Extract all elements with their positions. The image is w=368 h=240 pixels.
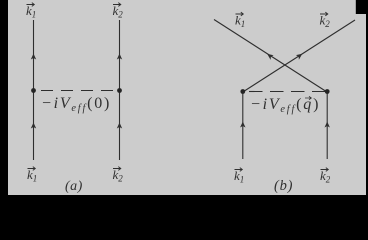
vertex dot right (a)	[117, 88, 122, 93]
label k2 bottom (b)	[320, 168, 331, 185]
label -iVeff(q)	[250, 96, 320, 115]
bottom black margin	[0, 195, 368, 213]
dashed interaction line (a)	[41, 90, 113, 92]
wire: diagonal line top-right to left vertex (b)	[243, 20, 355, 92]
vertex dot left (b)	[240, 89, 245, 94]
label k1 top (a)	[26, 3, 36, 20]
label k1 bottom (b)	[234, 168, 244, 185]
arrow lower-left (b)	[240, 122, 245, 128]
wire: left fermion line (a)	[33, 20, 35, 160]
label k1 top (b)	[235, 12, 245, 29]
wire: left vertical lower line (b)	[242, 92, 244, 160]
arrow lower-right (a)	[117, 123, 122, 129]
label k2 bottom (a)	[113, 167, 124, 184]
vertex dot left (a)	[31, 88, 36, 93]
dashed interaction line (b)	[249, 91, 325, 93]
arrow on right diagonal (b) pointing up-right	[296, 54, 302, 60]
vertex dot right (b)	[325, 89, 330, 94]
arrow lower-right (b)	[325, 122, 330, 128]
wire: right vertical lower line (b)	[326, 92, 328, 160]
label k1 bottom (a)	[27, 167, 37, 184]
label k2 top (b)	[320, 12, 331, 29]
top-right black notch	[356, 0, 368, 14]
wire: right fermion line (a)	[119, 20, 121, 160]
arrow upper-right (a)	[117, 54, 122, 60]
left black margin	[0, 0, 8, 213]
right black margin	[366, 0, 368, 213]
arrow lower-left (a)	[31, 123, 36, 129]
wire: diagonal line top-left to right vertex (b)	[214, 20, 327, 93]
svg-text:(a): (a)	[65, 179, 83, 194]
arrow upper-left (a)	[31, 54, 36, 60]
arrow on left diagonal (b) pointing up-left	[267, 54, 273, 60]
label k2 top (a)	[113, 3, 124, 20]
svg-text:(b): (b)	[274, 178, 293, 194]
